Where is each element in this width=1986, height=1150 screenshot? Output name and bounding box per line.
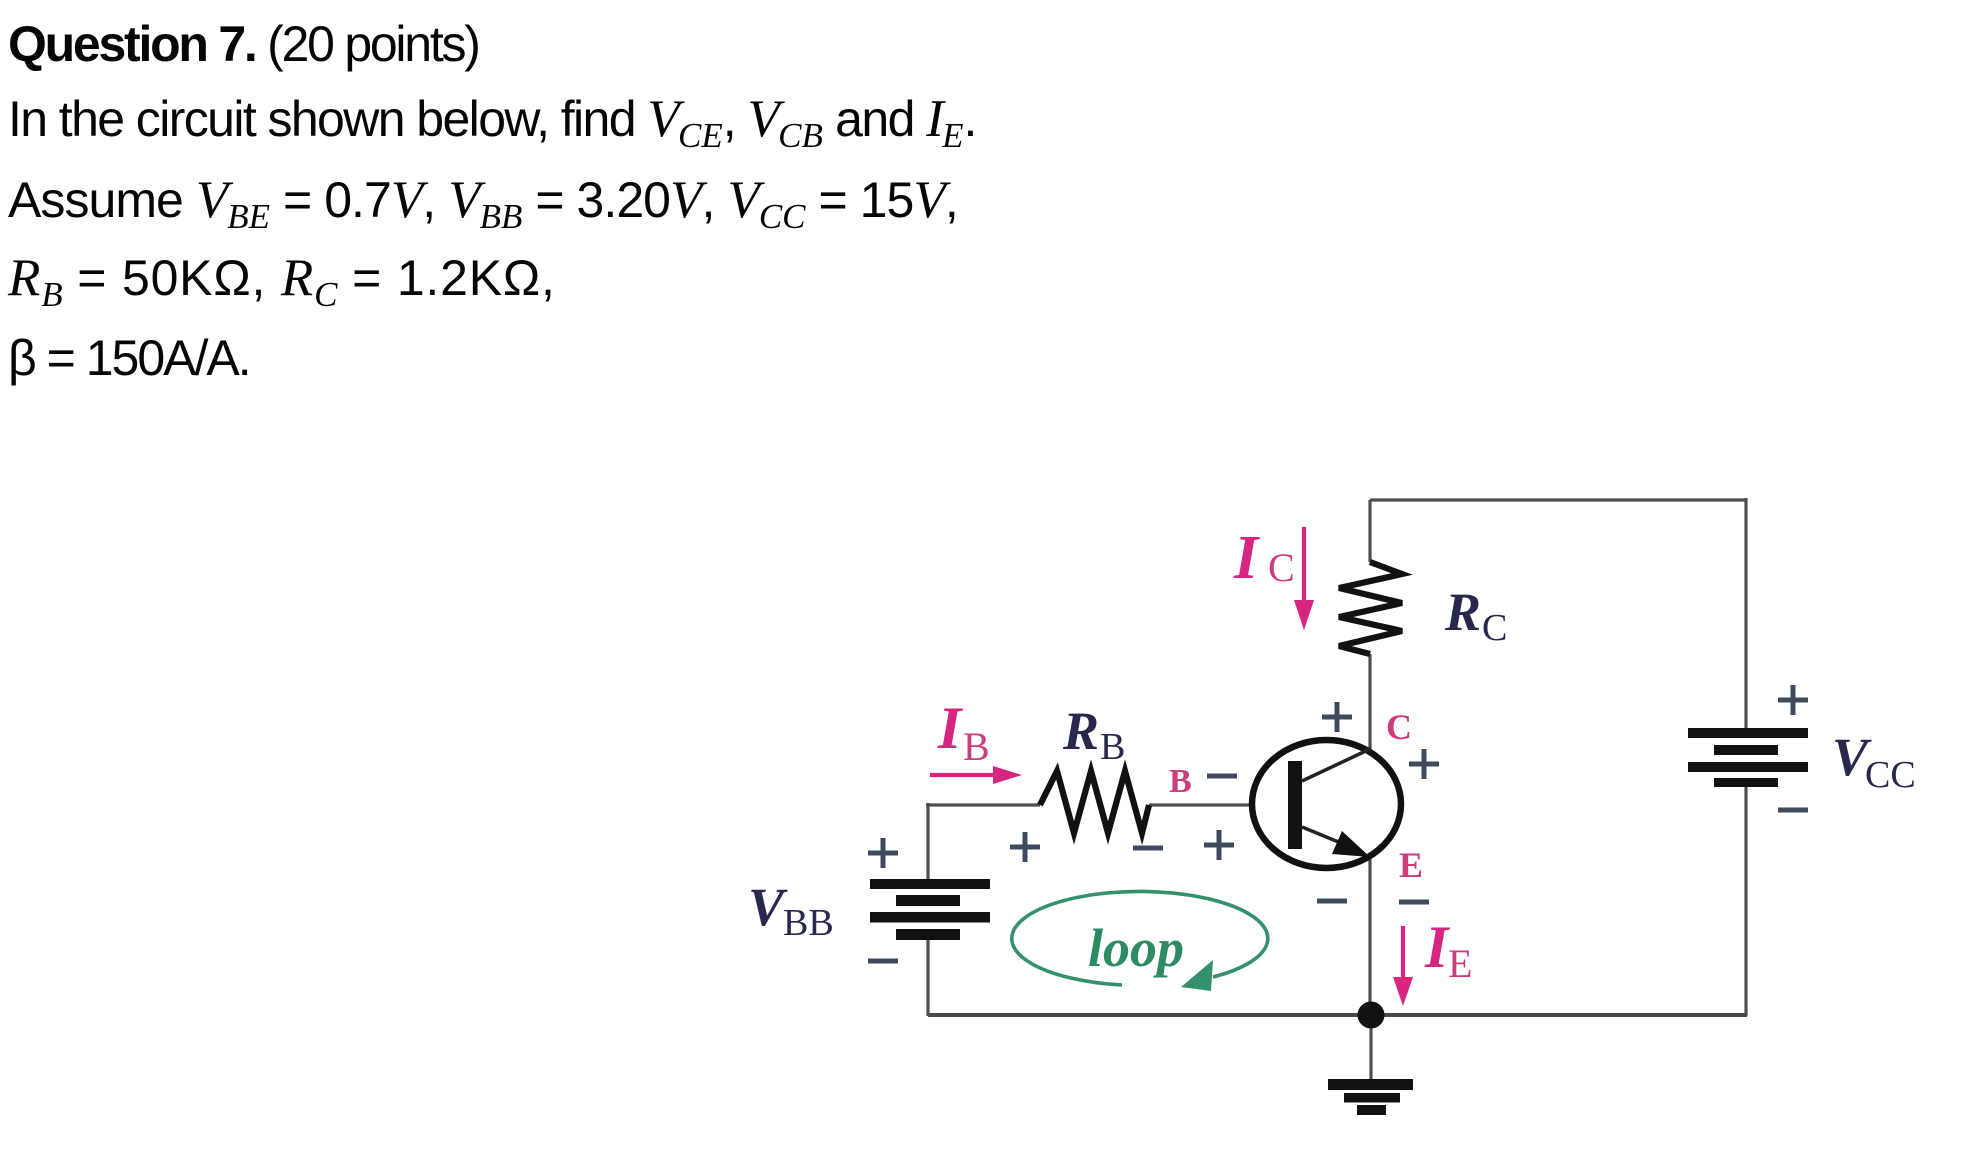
svg-text:R: R	[1444, 582, 1481, 642]
arrow IE (magenta)	[1401, 926, 1405, 980]
wire base left of RB	[926, 803, 1040, 806]
text line 3	[8, 176, 958, 241]
transistor base bar	[1288, 761, 1302, 849]
wire to ground	[1369, 1015, 1372, 1080]
plus left of RB (VRB +)	[1010, 832, 1040, 862]
minus below circle (VBE -)	[1317, 899, 1347, 904]
loop ellipse (green)	[1012, 891, 1268, 985]
arrow IB (magenta)	[930, 773, 996, 777]
transistor emitter arrowhead	[1332, 831, 1370, 857]
wire emitter down	[1368, 858, 1371, 1015]
node (bottom junction)	[1358, 1002, 1385, 1029]
svg-text:I: I	[937, 695, 964, 761]
text line 2	[8, 95, 976, 160]
plus VCC	[1778, 685, 1808, 715]
plus right of C (VCE +)	[1409, 749, 1439, 779]
battery VCC	[1688, 728, 1808, 787]
transistor collector lead	[1302, 749, 1370, 781]
text line 4	[8, 254, 556, 319]
svg-text:C: C	[1386, 707, 1412, 747]
svg-text:B: B	[1169, 763, 1192, 800]
wire RC top stub	[1368, 500, 1371, 562]
svg-text:E: E	[1448, 941, 1472, 986]
svg-text:B: B	[1100, 726, 1125, 768]
plus VBE +	[1204, 830, 1234, 860]
svg-text:I: I	[1424, 914, 1451, 980]
transistor emitter lead	[1302, 827, 1358, 850]
svg-text:BB: BB	[783, 902, 834, 944]
text line 5	[8, 334, 250, 382]
arrow IC (magenta)	[1302, 527, 1306, 604]
svg-text:V: V	[748, 877, 788, 937]
wire RC to collector	[1368, 654, 1371, 750]
minus VBB	[868, 959, 898, 964]
resistor RB	[1040, 771, 1149, 833]
minus VCC	[1778, 808, 1808, 813]
svg-text:R: R	[1062, 701, 1099, 761]
svg-text:E: E	[1399, 845, 1423, 885]
ground	[1328, 1079, 1413, 1115]
wire bottom	[928, 1013, 1747, 1017]
battery VBB	[870, 879, 990, 940]
svg-text:C: C	[1482, 607, 1507, 649]
wire right lower (Vcc - to bottom)	[1744, 786, 1747, 1016]
text line 1	[8, 20, 479, 68]
svg-text:C: C	[1268, 545, 1295, 590]
transistor Q1 circle	[1252, 740, 1401, 868]
loop arrowhead	[1181, 960, 1213, 991]
wire base RB to transistor	[1149, 803, 1252, 806]
svg-text:I: I	[1233, 524, 1260, 592]
plus VBB	[868, 838, 898, 868]
svg-text:loop: loop	[1088, 918, 1184, 978]
plus above collector	[1322, 702, 1352, 732]
svg-text:CC: CC	[1865, 754, 1916, 796]
svg-text:B: B	[963, 724, 990, 769]
wire VBB top lead	[926, 803, 929, 880]
minus after B label	[1207, 774, 1237, 779]
resistor RC	[1339, 562, 1402, 654]
minus right of RB (VRB -)	[1133, 846, 1163, 851]
minus below E (VCE -)	[1399, 900, 1429, 905]
wire right upper (to Vcc +)	[1744, 498, 1747, 730]
wire VBB bottom lead	[926, 940, 929, 1016]
wire top (node C to Vcc)	[1370, 498, 1746, 501]
